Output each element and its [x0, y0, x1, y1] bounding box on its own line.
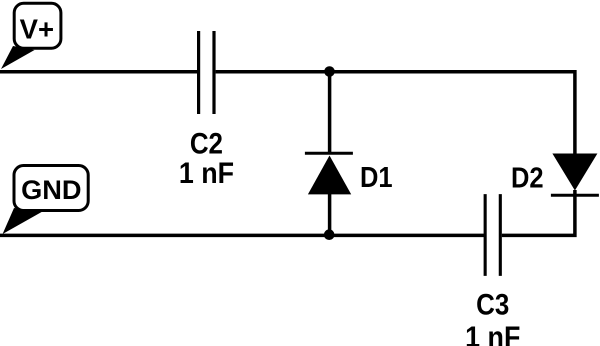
junction node top (C2 / D1 / D2 net) — [324, 66, 335, 77]
wire GND rail from GND flag to C3 left plate — [0, 234, 484, 238]
svg-text:C3: C3 — [476, 288, 509, 321]
wire top rail from C2 right plate to top-right corner down to D2 — [216, 72, 575, 154]
svg-text:D1: D1 — [360, 160, 393, 193]
capacitor C3 — [485, 194, 500, 276]
svg-text:1 nF: 1 nF — [465, 320, 520, 346]
net flag GND tail — [3, 208, 42, 234]
svg-text:1 nF: 1 nF — [179, 156, 234, 189]
wire D1 branch lower (D1 anode to GND rail) — [328, 194, 332, 237]
net flag GND bubble — [14, 166, 88, 211]
capacitor C2 — [199, 31, 214, 114]
net flag V+ bubble — [14, 3, 61, 48]
svg-text:GND: GND — [21, 174, 81, 205]
wire from D2 anode down and left to C3 right plate — [502, 190, 575, 235]
svg-text:V+: V+ — [20, 13, 54, 44]
diode D2 (anode up, cathode bar down) — [551, 154, 599, 196]
wire top rail from V+ to C2 left plate — [0, 70, 197, 74]
svg-text:D2: D2 — [511, 161, 544, 194]
wire D1 branch upper (node to D1 cathode bar) — [328, 70, 332, 153]
junction node bottom (GND rail / D1 anode) — [324, 229, 335, 240]
net flag V+ tail — [1, 46, 35, 69]
diode D1 (cathode bar up, anode down) — [305, 153, 353, 194]
